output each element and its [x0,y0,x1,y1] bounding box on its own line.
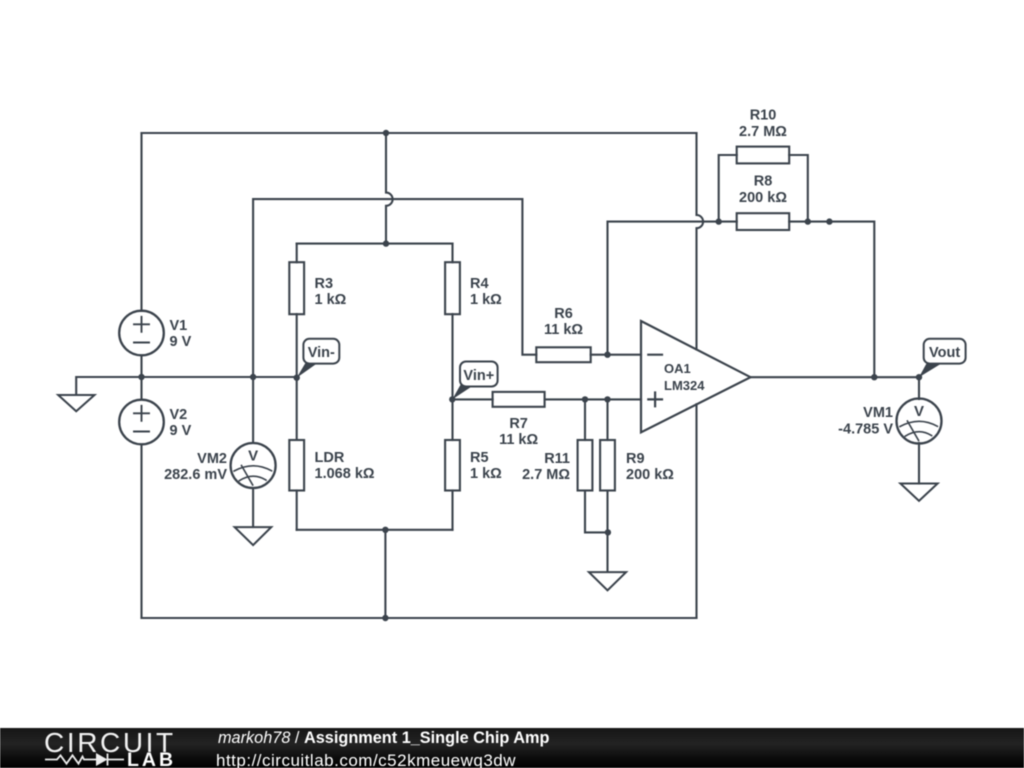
svg-text:VM1: VM1 [863,405,893,421]
svg-text:V: V [248,448,258,465]
svg-text:200 kΩ: 200 kΩ [739,190,787,206]
wire bridge right: top to R4 [451,244,453,263]
resistor R4 [445,262,502,314]
wire supply rail upper with hop [697,133,704,349]
wire R9 branch down [606,399,608,440]
wire R9 bottom to ground [606,491,608,573]
svg-text:R3: R3 [315,276,334,292]
svg-text:200 kΩ: 200 kΩ [626,467,674,483]
svg-text:1.068 kΩ: 1.068 kΩ [315,466,375,482]
wire Vin- horizontal [142,376,297,378]
wire R5 to bridge bottom [451,491,453,530]
node Vout / VM1 tap [916,374,922,380]
node output / feedback drop [871,374,877,380]
wire V1 to V2 junction [140,356,142,400]
svg-text:9 V: 9 V [170,423,192,439]
voltmeter VM1 [897,399,942,444]
voltage source V1 [119,311,164,356]
footer bar [0,728,1024,768]
wire top rail [142,132,697,134]
ground (below R9) [589,572,626,590]
svg-text:R5: R5 [470,450,489,466]
wire bridge bottom to bottom rail [384,530,386,618]
svg-text:LDR: LDR [315,450,345,466]
wire R10 right connector [789,155,808,222]
wire second rail (to R6) [253,199,536,377]
svg-text:LM324: LM324 [664,378,705,393]
svg-text:R8: R8 [754,174,773,190]
node Vin- [294,375,300,381]
node bottom rail center [382,615,388,621]
node Vin+ flag [452,362,497,400]
svg-text:-4.785 V: -4.785 V [838,422,893,438]
wire bridge left: top to R3 [296,244,298,263]
wire bridge top [297,243,453,245]
wire VM2 to ground [252,488,254,527]
svg-text:V: V [914,403,924,420]
logo resistor zigzag and diode [45,754,124,766]
node R11 top [582,396,588,402]
ground (below VM2) [235,527,272,545]
wire Vin- node to LDR [296,378,298,440]
voltmeter VM2 [231,443,276,488]
svg-text:R11: R11 [544,451,570,467]
resistor R9 [600,440,674,491]
wire R7 to op-amp plus input [545,398,641,400]
node Vin+ [449,396,455,402]
node bridge bottom center [382,527,388,533]
wire R10 left connector [719,155,737,222]
svg-text:11 kΩ: 11 kΩ [499,432,538,448]
op-amp OA1 [641,321,751,432]
node R9 top [604,396,610,402]
resistor R7 [493,392,545,448]
wire VM1 branch [918,377,920,399]
wire bottom rail [142,617,697,619]
svg-text:Vin-: Vin- [308,345,335,361]
ground (left, between V1 and V2) [58,395,94,411]
wire R4 to Vin+ node [451,314,453,399]
footer text [218,730,549,746]
svg-text:VM2: VM2 [197,451,227,467]
wire Vin+ node to R7 [453,398,493,400]
wire R11 bottom to R9 net [585,491,608,533]
wire left rail upper (top rail to V1) [140,133,142,311]
node top rail / center vertical [383,130,389,136]
wire R8 right to output drop [789,222,874,378]
svg-text:R6: R6 [554,306,573,322]
ground (below VM1) [900,484,937,501]
svg-text:Vin+: Vin+ [463,368,494,384]
svg-text:R9: R9 [626,451,645,467]
CircuitLab logo [44,729,176,757]
wire op-amp output [751,376,920,378]
svg-text:V2: V2 [170,407,188,423]
svg-text:1 kΩ: 1 kΩ [315,292,347,308]
resistor R8 [737,174,790,231]
node Vin- flag [297,339,340,378]
svg-text:R7: R7 [509,416,528,432]
svg-text:R4: R4 [470,276,489,292]
svg-text:2.7 MΩ: 2.7 MΩ [739,124,787,140]
node minus input / feedback [604,352,610,358]
svg-text:1 kΩ: 1 kΩ [470,292,502,308]
wire Vin+ node to R5 [451,399,453,440]
wire LDR to bridge bottom [296,491,298,530]
wire bridge bottom [297,529,453,531]
wire R6 to op-amp minus input [591,354,641,356]
wire feedback up from minus input [608,222,737,355]
wire R11 branch down [584,399,586,440]
voltage source V2 [119,400,164,445]
svg-text:9 V: 9 V [170,334,192,350]
node R8-R10 right [805,218,811,224]
node VM2 tap [250,374,256,380]
wire VM1 to ground [918,443,920,484]
svg-text:V1: V1 [170,318,188,334]
node Vout flag [919,339,966,377]
svg-text:R10: R10 [750,108,777,124]
node V1-V2 midpoint [138,374,144,380]
svg-text:1 kΩ: 1 kΩ [470,466,502,482]
wire VM2 branch [252,377,254,443]
photoresistor LDR [289,440,375,491]
svg-text:282.6 mV: 282.6 mV [164,467,227,483]
node R8-R10 left [716,218,722,224]
svg-text:2.7 MΩ: 2.7 MΩ [522,467,570,483]
wire ground stub left [76,377,141,395]
wire R3 to Vin- node [296,314,298,378]
svg-text:Vout: Vout [929,345,960,361]
resistor R10 [737,108,790,164]
resistor R11 [522,440,592,491]
svg-text:OA1: OA1 [664,361,691,376]
resistor R5 [445,440,502,491]
node feedback right [826,218,832,224]
resistor R6 [536,306,590,362]
wire center vertical with hop [386,133,393,244]
resistor R3 [289,262,346,314]
svg-text:11 kΩ: 11 kΩ [544,322,583,338]
node bridge top [383,240,389,246]
node R11/R9 bottom [605,529,611,535]
wire V2 bottom to bottom rail [140,445,142,619]
wire supply rail lower [695,404,697,618]
